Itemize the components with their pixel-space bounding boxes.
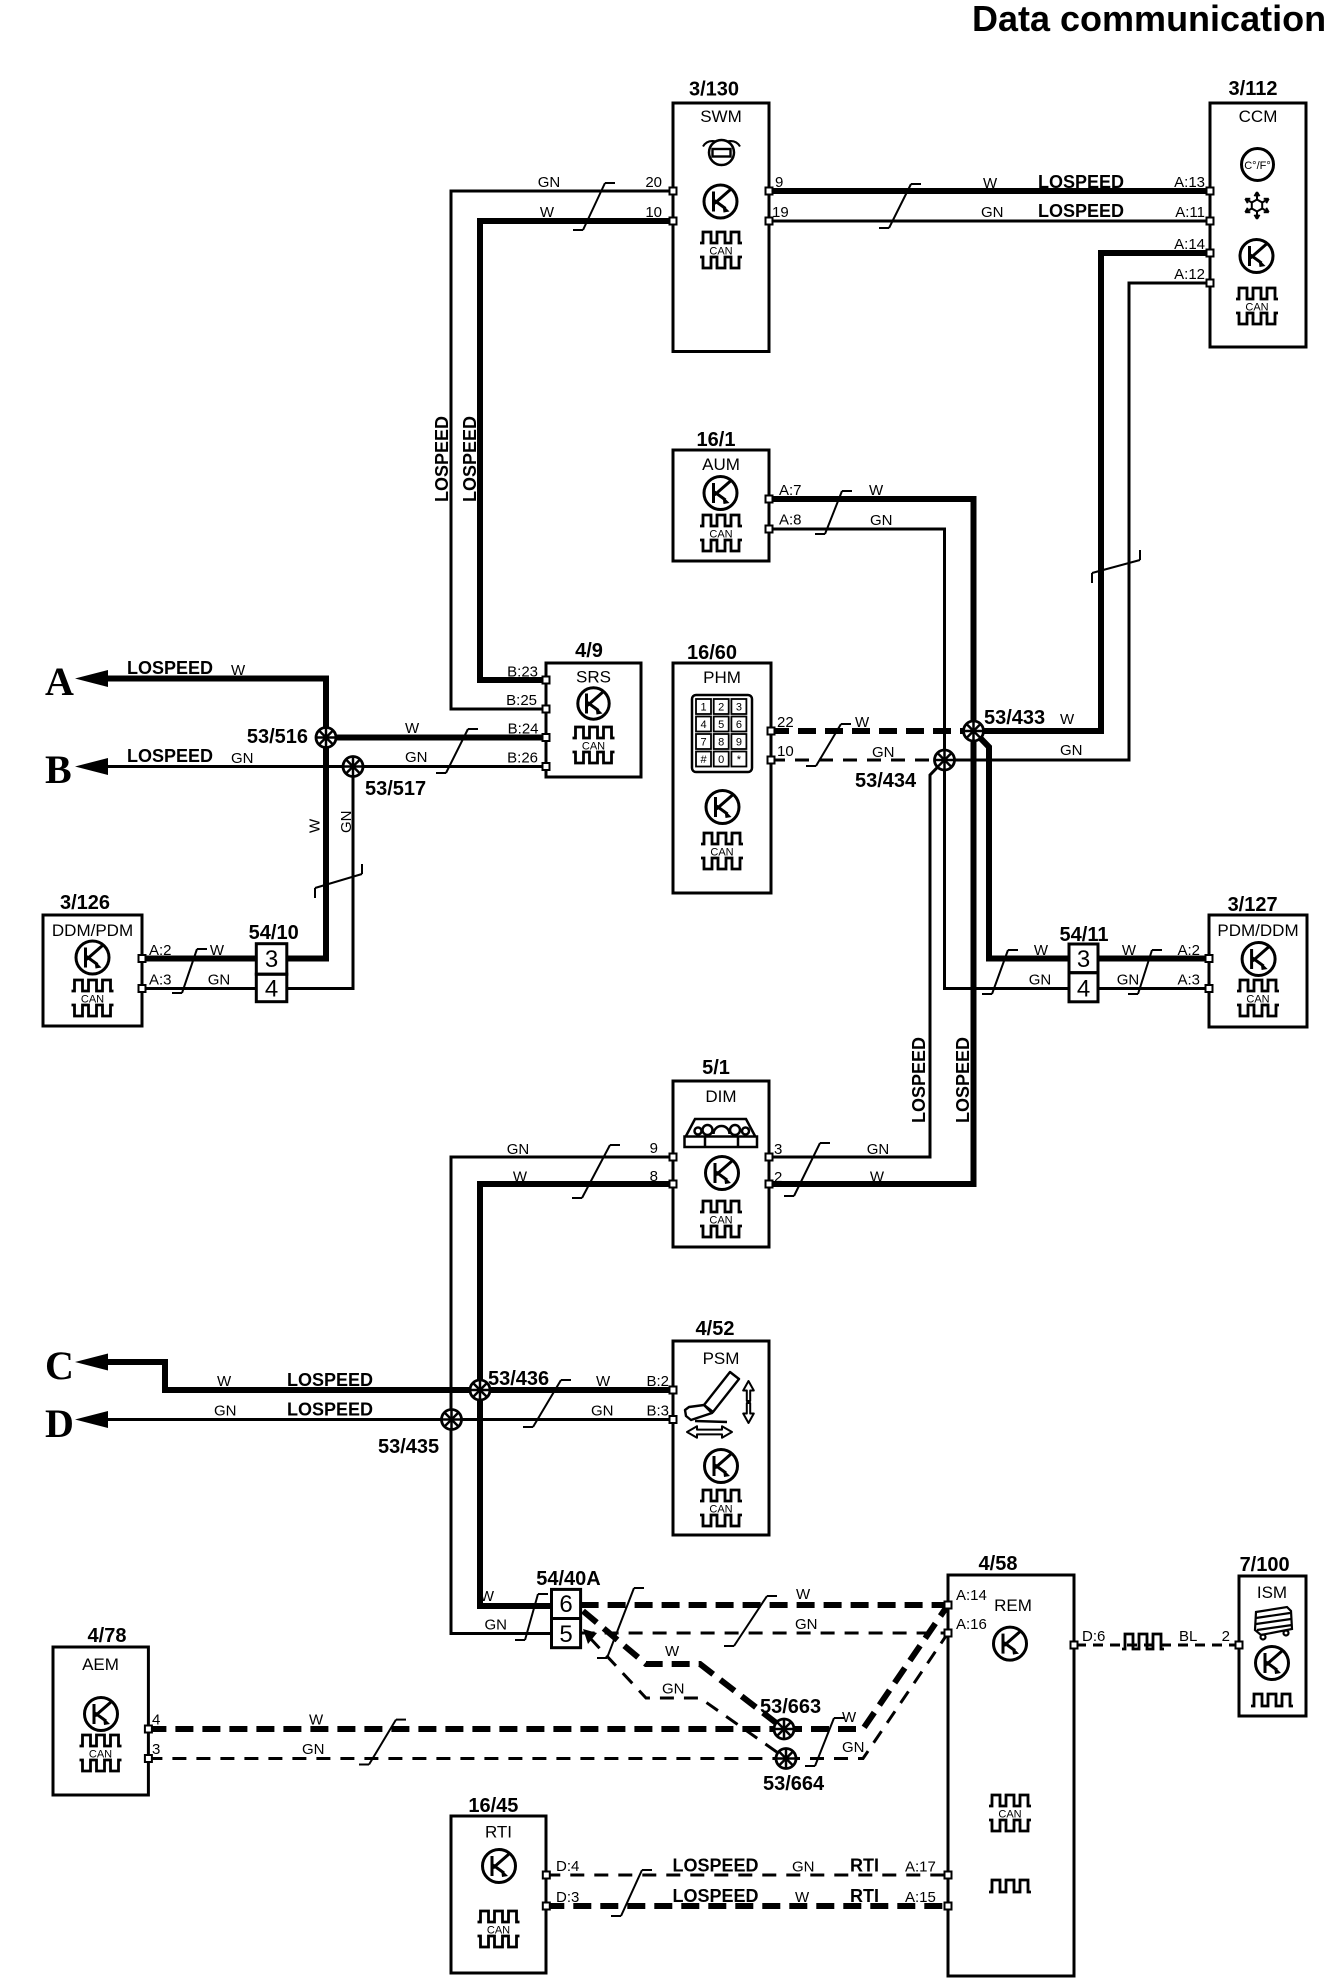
AEM K symbol	[85, 1698, 118, 1731]
svg-text:W: W	[842, 1709, 857, 1726]
svg-text:GN: GN	[842, 1739, 865, 1756]
svg-text:GN: GN	[1117, 972, 1140, 989]
svg-text:D:3: D:3	[556, 1889, 579, 1906]
twisted pair marker SWM left pair	[573, 183, 615, 230]
svg-text:GN: GN	[981, 204, 1004, 221]
svg-text:LOSPEED: LOSPEED	[909, 1037, 929, 1123]
svg-text:A:11: A:11	[1175, 204, 1205, 221]
twisted pair marker CCM vertical pair	[1092, 550, 1140, 583]
svg-text:DIM: DIM	[705, 1087, 736, 1106]
AUM pins	[766, 496, 773, 503]
PSM pins	[670, 1387, 677, 1394]
svg-text:A:17: A:17	[905, 1859, 936, 1876]
svg-text:GN: GN	[208, 972, 231, 989]
splice 53/516	[316, 728, 336, 748]
CCM pins	[1207, 188, 1214, 195]
svg-text:W: W	[405, 720, 420, 737]
wire GN LOSPEED SWM:19 to CCM:A11	[769, 220, 1210, 223]
svg-text:3: 3	[265, 946, 278, 973]
svg-text:LOSPEED: LOSPEED	[1038, 201, 1124, 221]
wire BL dashed REM:D6 to ISM:2	[1076, 1644, 1239, 1647]
seat arrows	[687, 1381, 754, 1438]
svg-text:4/78: 4/78	[88, 1625, 127, 1647]
seat icon	[685, 1372, 739, 1422]
svg-text:20: 20	[645, 174, 662, 191]
svg-text:5: 5	[559, 1621, 572, 1648]
PDM CAN symbol	[1237, 980, 1279, 991]
svg-text:A:16: A:16	[956, 1616, 987, 1633]
svg-text:A:8: A:8	[779, 512, 802, 529]
svg-text:A:14: A:14	[956, 1587, 987, 1604]
svg-text:AUM: AUM	[702, 455, 740, 474]
DDM K symbol	[76, 941, 109, 974]
svg-text:W: W	[596, 1373, 611, 1390]
DDM CAN symbol	[72, 980, 114, 991]
svg-text:7/100: 7/100	[1240, 1554, 1290, 1576]
splice 53/436	[470, 1380, 490, 1400]
SWM pins	[670, 188, 677, 195]
wire W dashed PHM:22 to splice 53/433	[771, 728, 974, 734]
svg-text:GN: GN	[662, 1681, 685, 1698]
svg-text:GN: GN	[870, 512, 893, 529]
svg-text:D: D	[45, 1401, 74, 1446]
svg-text:4/52: 4/52	[696, 1318, 735, 1340]
ISM pin	[1236, 1642, 1243, 1649]
svg-text:C°/F°: C°/F°	[1244, 160, 1271, 172]
svg-text:W: W	[869, 482, 884, 499]
svg-text:W: W	[1060, 711, 1075, 728]
svg-text:19: 19	[772, 204, 789, 221]
svg-text:SRS: SRS	[576, 668, 611, 687]
twisted pair marker A/B vertical pair	[315, 864, 362, 898]
svg-text:53/434: 53/434	[855, 770, 917, 792]
svg-text:W: W	[983, 175, 998, 192]
splice 53/435	[442, 1410, 462, 1430]
svg-text:53/435: 53/435	[378, 1436, 439, 1458]
svg-text:Data communication: Data communication	[972, 0, 1326, 39]
twisted pair marker DIM right pair	[784, 1143, 830, 1196]
svg-text:A: A	[45, 659, 74, 704]
svg-text:LOSPEED: LOSPEED	[953, 1037, 973, 1123]
svg-text:10: 10	[645, 204, 662, 221]
svg-text:7: 7	[700, 737, 706, 749]
PSM CAN symbol	[700, 1490, 742, 1501]
CCM K symbol	[1240, 240, 1273, 273]
DIM K symbol	[706, 1157, 739, 1190]
svg-text:PDM/DDM: PDM/DDM	[1217, 921, 1298, 940]
svg-text:GN: GN	[507, 1141, 530, 1158]
splice 53/663	[774, 1719, 794, 1739]
svg-text:AEM: AEM	[82, 1655, 119, 1674]
svg-text:REM: REM	[994, 1596, 1032, 1615]
wire W splice 53/516 to SRS:B24	[326, 735, 546, 741]
svg-text:53/433: 53/433	[984, 707, 1045, 729]
svg-text:54/10: 54/10	[249, 922, 299, 944]
svg-text:53/664: 53/664	[763, 1773, 825, 1795]
REM K symbol	[994, 1627, 1027, 1660]
twisted pair marker AUM pair	[815, 491, 852, 534]
svg-text:LOSPEED: LOSPEED	[127, 746, 213, 766]
svg-text:LOSPEED: LOSPEED	[1038, 172, 1124, 192]
svg-text:GN: GN	[1029, 972, 1052, 989]
twisted pair marker AEM pair	[359, 1720, 406, 1765]
twisted pair marker C/D pair	[523, 1380, 571, 1427]
svg-text:3: 3	[736, 702, 742, 714]
svg-text:3: 3	[152, 1741, 160, 1758]
PHM K symbol	[706, 791, 739, 824]
svg-text:SWM: SWM	[700, 107, 742, 126]
svg-text:BL: BL	[1179, 1628, 1197, 1645]
svg-text:ISM: ISM	[1257, 1583, 1287, 1602]
arrow C head	[75, 1354, 108, 1371]
svg-text:3/127: 3/127	[1228, 894, 1278, 916]
wire GN dashed RTI:D4 to REM:A17	[546, 1874, 948, 1877]
svg-text:B: B	[45, 747, 72, 792]
wire W CCM:A14 down to splice 53/433	[974, 253, 1211, 731]
svg-text:B:3: B:3	[646, 1403, 669, 1420]
wire GN 54/11:4 to PDM:A3	[1098, 987, 1210, 990]
svg-text:RTI: RTI	[485, 1823, 512, 1842]
AEM CAN symbol	[80, 1735, 122, 1746]
splice 53/434	[935, 750, 955, 770]
svg-text:GN: GN	[538, 174, 561, 191]
twisted pair marker 54/40A left pair	[515, 1594, 548, 1640]
svg-text:4: 4	[700, 719, 706, 731]
svg-text:6: 6	[559, 1591, 572, 1618]
svg-text:GN: GN	[405, 749, 428, 766]
svg-text:D:6: D:6	[1082, 1628, 1105, 1645]
twisted pair marker 54/11 left pair	[982, 950, 1018, 994]
CCM CAN symbol	[1236, 288, 1278, 299]
svg-text:PSM: PSM	[703, 1349, 740, 1368]
wire GN DDM:A3 to 54/10:4	[142, 987, 256, 990]
twisted pair marker DDM pair	[172, 949, 207, 993]
svg-text:#: #	[700, 754, 707, 766]
SRS pins	[543, 677, 550, 684]
wire W LOSPEED SWM:9 to CCM:A13	[769, 188, 1210, 194]
wire GN dashed 54/40A:5 to REM:A16	[581, 1632, 948, 1635]
svg-text:A:14: A:14	[1174, 236, 1205, 253]
svg-text:W: W	[870, 1169, 885, 1186]
arrow A head	[75, 670, 108, 687]
PHM CAN symbol	[701, 833, 743, 844]
svg-text:8: 8	[650, 1168, 658, 1185]
twisted pair marker 53/663 right pair	[805, 1718, 844, 1766]
svg-text:0: 0	[718, 754, 724, 766]
splice 53/517	[343, 757, 363, 777]
RTI pins	[543, 1872, 550, 1879]
twisted pair marker PHM pair	[806, 724, 851, 766]
AEM pins	[145, 1726, 152, 1733]
DIM pins	[670, 1154, 677, 1161]
svg-text:LOSPEED: LOSPEED	[673, 1886, 759, 1906]
svg-text:CCM: CCM	[1239, 107, 1278, 126]
svg-text:A:3: A:3	[1177, 972, 1200, 989]
wire W LOSPEED arrow C	[107, 1362, 673, 1390]
RTI K symbol	[483, 1850, 516, 1883]
svg-text:LOSPEED: LOSPEED	[127, 658, 213, 678]
keypad icon	[692, 695, 752, 772]
svg-text:GN: GN	[485, 1617, 508, 1634]
svg-text:A:2: A:2	[1177, 942, 1200, 959]
svg-text:2: 2	[718, 702, 724, 714]
twisted pair marker 54/40A diagonal pair	[597, 1588, 644, 1658]
svg-text:6: 6	[736, 719, 742, 731]
splice 53/664	[776, 1749, 796, 1769]
svg-text:W: W	[540, 204, 555, 221]
svg-text:53/436: 53/436	[488, 1368, 549, 1390]
wire GN AUM:A8 down	[769, 529, 1069, 989]
ISM square wave symbol	[1251, 1694, 1293, 1706]
svg-text:9: 9	[650, 1140, 658, 1157]
wire GN DIM:9 left down	[451, 1157, 673, 1634]
wire GN LOSPEED arrow D to PSM:B3	[107, 1418, 673, 1421]
svg-text:W: W	[480, 1588, 495, 1605]
svg-text:4: 4	[1077, 976, 1090, 1003]
svg-text:W: W	[1122, 942, 1137, 959]
AUM CAN symbol	[700, 515, 742, 526]
SRS K symbol	[578, 688, 609, 719]
wire W DDM:A2 to 54/10:3	[142, 956, 256, 962]
svg-text:9: 9	[736, 737, 742, 749]
svg-text:W: W	[307, 818, 324, 833]
svg-text:4/58: 4/58	[979, 1553, 1018, 1575]
ISM module icon	[1255, 1607, 1292, 1640]
svg-text:W: W	[513, 1169, 528, 1186]
twisted pair marker SWM-CCM pair	[879, 184, 921, 228]
wire GN LOSPEED arrow B to SRS:B26	[107, 765, 546, 768]
svg-text:5: 5	[718, 719, 724, 731]
svg-text:A:12: A:12	[1174, 266, 1205, 283]
wire GN SWM:20 left	[451, 191, 673, 709]
svg-text:8: 8	[718, 737, 724, 749]
wire W SWM:10 left	[480, 221, 673, 680]
svg-text:W: W	[855, 714, 870, 731]
svg-text:D:4: D:4	[556, 1858, 579, 1875]
svg-text:W: W	[309, 1712, 324, 1729]
twisted pair marker RTI pair	[611, 1870, 652, 1916]
svg-text:GN: GN	[302, 1741, 325, 1758]
PSM K symbol	[705, 1450, 738, 1483]
wire GN branch splice 53/434 to DIM:3	[769, 760, 945, 1157]
twisted pair marker SRS pair	[436, 729, 478, 773]
wire GN CCM:A12 down to splice 53/434	[945, 283, 1211, 760]
svg-text:B:26: B:26	[507, 750, 538, 767]
instrument cluster icon	[685, 1119, 758, 1147]
svg-text:A:7: A:7	[779, 482, 802, 499]
svg-text:W: W	[231, 662, 246, 679]
snowflake icon	[1245, 192, 1268, 219]
svg-text:53/516: 53/516	[247, 726, 308, 748]
C/F circle icon	[1242, 149, 1274, 181]
svg-text:GN: GN	[867, 1141, 890, 1158]
svg-text:GN: GN	[591, 1403, 614, 1420]
wire W LOSPEED arrow A	[107, 679, 326, 959]
svg-text:3/112: 3/112	[1229, 78, 1278, 100]
PDM K symbol	[1242, 943, 1275, 976]
svg-text:B:2: B:2	[646, 1373, 669, 1390]
PDM pins	[1206, 955, 1213, 962]
svg-text:B:23: B:23	[507, 664, 538, 681]
svg-text:W: W	[665, 1643, 680, 1660]
arrow B head	[75, 758, 108, 775]
svg-text:16/60: 16/60	[687, 642, 737, 664]
svg-text:W: W	[217, 1373, 232, 1390]
svg-text:54/40A: 54/40A	[536, 1568, 601, 1590]
svg-text:53/663: 53/663	[760, 1696, 821, 1718]
DIM CAN symbol	[700, 1201, 742, 1212]
svg-text:B:24: B:24	[508, 721, 539, 738]
svg-text:3: 3	[1077, 946, 1090, 973]
svg-text:4/9: 4/9	[575, 640, 603, 662]
svg-text:3: 3	[774, 1141, 782, 1158]
svg-text:LOSPEED: LOSPEED	[287, 1370, 373, 1390]
svg-text:3/130: 3/130	[689, 79, 739, 101]
svg-text:RTI: RTI	[850, 1856, 879, 1876]
wire GN dashed PHM:10 to splice 53/434	[771, 759, 945, 762]
svg-text:LOSPEED: LOSPEED	[673, 1856, 759, 1876]
RTI CAN symbol	[478, 1911, 520, 1922]
svg-text:4: 4	[265, 976, 278, 1003]
svg-text:GN: GN	[1060, 742, 1083, 759]
wire W dashed RTI:D3 to REM:A15	[546, 1903, 948, 1909]
svg-text:LOSPEED: LOSPEED	[432, 416, 452, 502]
wire W dashed 54/40A:6 to REM:A14	[581, 1602, 948, 1608]
svg-text:*: *	[737, 754, 742, 766]
svg-text:2: 2	[774, 1169, 782, 1186]
steering wheel icon	[703, 140, 740, 165]
svg-text:2: 2	[1222, 1628, 1230, 1645]
svg-text:RTI: RTI	[850, 1886, 879, 1906]
svg-text:22: 22	[777, 714, 794, 731]
svg-text:A:13: A:13	[1174, 174, 1205, 191]
SWM CAN symbol	[700, 232, 742, 243]
arrow D head	[75, 1411, 108, 1428]
svg-text:LOSPEED: LOSPEED	[287, 1400, 373, 1420]
REM pins	[945, 1602, 952, 1609]
twisted pair marker 54/40A right pair	[724, 1596, 777, 1646]
splice 53/433	[964, 721, 984, 741]
svg-text:LOSPEED: LOSPEED	[460, 416, 480, 502]
wire W AUM:A7 down	[769, 499, 974, 1184]
wire W dashed AEM:4 to splice 53/663	[148, 1726, 784, 1732]
svg-text:16/1: 16/1	[697, 429, 736, 451]
svg-text:C: C	[45, 1343, 74, 1388]
AUM K symbol	[704, 477, 737, 510]
DDM pins	[139, 955, 146, 962]
svg-text:GN: GN	[214, 1403, 237, 1420]
arrowhead at 54/40A:5 diagonal	[583, 1629, 597, 1644]
svg-text:GN: GN	[795, 1616, 818, 1633]
wire W dashed splice 53/663 to REM:A14	[784, 1605, 948, 1729]
svg-text:A:3: A:3	[149, 972, 172, 989]
ISM K symbol	[1256, 1647, 1289, 1680]
wire GN dashed diagonal 54/40A:5 to splice 53/664	[590, 1638, 786, 1759]
svg-text:GN: GN	[338, 811, 355, 834]
REM square wave symbol	[989, 1880, 1031, 1892]
wire GN dashed AEM:3 to splice 53/664	[148, 1757, 786, 1760]
SWM K symbol	[704, 185, 737, 218]
svg-text:W: W	[210, 942, 225, 959]
SRS CAN symbol	[573, 727, 615, 738]
PHM pins	[768, 728, 775, 735]
svg-text:1: 1	[700, 702, 706, 714]
wire W 54/11:3 to PDM:A2	[1098, 956, 1210, 962]
svg-text:16/45: 16/45	[468, 1795, 518, 1817]
svg-text:W: W	[795, 1889, 810, 1906]
wire GN dashed splice 53/664 to REM:A16	[786, 1633, 948, 1759]
twisted pair marker DIM left pair	[572, 1145, 620, 1198]
svg-text:10: 10	[777, 743, 794, 760]
svg-text:GN: GN	[231, 750, 254, 767]
REM CAN symbol	[989, 1795, 1031, 1806]
svg-text:W: W	[1034, 942, 1049, 959]
svg-text:4: 4	[152, 1712, 160, 1729]
svg-text:9: 9	[775, 174, 783, 191]
wire W branch splice 53/433 to 54/11:3	[974, 731, 1070, 959]
svg-text:W: W	[796, 1586, 811, 1603]
svg-text:53/517: 53/517	[365, 778, 426, 800]
svg-text:3/126: 3/126	[60, 892, 110, 914]
svg-text:A:15: A:15	[905, 1889, 936, 1906]
wire W dashed diagonal 54/40A:6 to splice 53/663	[583, 1611, 784, 1729]
svg-text:GN: GN	[792, 1859, 815, 1876]
svg-text:DDM/PDM: DDM/PDM	[52, 921, 133, 940]
wire GN splice 53/517 down to 54/10:4	[287, 767, 353, 989]
svg-text:B:25: B:25	[506, 692, 537, 709]
svg-text:A:2: A:2	[149, 942, 172, 959]
twisted pair marker 54/11 right pair	[1128, 950, 1162, 994]
svg-text:5/1: 5/1	[702, 1057, 730, 1079]
svg-text:PHM: PHM	[703, 668, 741, 687]
wire W DIM:8 left down	[480, 1184, 673, 1606]
svg-text:GN: GN	[872, 744, 895, 761]
